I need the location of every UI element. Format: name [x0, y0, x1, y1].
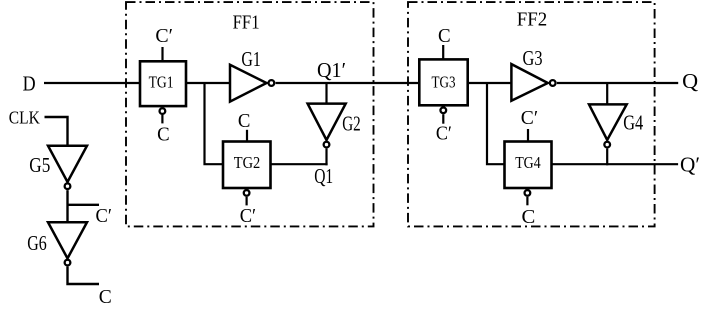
svg-text:C: C — [438, 25, 451, 47]
svg-text:C: C — [522, 206, 536, 228]
TG3 bottom bubble — [440, 107, 446, 113]
svg-text:C: C — [157, 123, 170, 145]
wire TG4 output to Q' — [552, 163, 679, 165]
svg-text:TG3: TG3 — [432, 73, 456, 92]
svg-text:C′: C′ — [96, 205, 112, 227]
svg-text:C′: C′ — [155, 25, 173, 47]
svg-text:TG4: TG4 — [515, 153, 541, 172]
svg-text:Q1′: Q1′ — [317, 58, 346, 82]
transmission gate TG1 — [140, 61, 186, 106]
wire D to TG1 — [44, 82, 141, 84]
TG4 bottom bubble — [525, 190, 531, 196]
wire TG1 to G1 — [186, 82, 231, 84]
wire G3 to Q — [557, 82, 678, 84]
svg-text:G4: G4 — [623, 111, 643, 135]
wire CLK to G5 — [45, 117, 68, 147]
svg-text:C′: C′ — [521, 107, 538, 129]
TG4 bottom control stub — [526, 197, 528, 206]
svg-text:G3: G3 — [523, 46, 543, 70]
svg-text:CLK: CLK — [9, 107, 40, 127]
inverter G5 (pointing down) — [48, 146, 87, 182]
svg-text:D: D — [23, 72, 36, 96]
wire G4 bubble to Q' rail — [606, 149, 608, 166]
svg-text:G2: G2 — [342, 112, 361, 136]
svg-text:G6: G6 — [27, 231, 47, 255]
svg-text:Q′: Q′ — [680, 152, 700, 176]
svg-text:C: C — [238, 110, 251, 132]
TG3 top control stub — [442, 45, 444, 59]
inverter G4 (pointing down) — [589, 104, 627, 140]
TG1 bottom control stub — [161, 115, 163, 123]
svg-text:G5: G5 — [29, 153, 50, 177]
svg-text:TG1: TG1 — [149, 72, 174, 91]
inverter G3 — [511, 64, 547, 101]
wire TG2 output to G2 — [271, 163, 328, 165]
svg-text:C: C — [99, 286, 112, 308]
svg-text:FF2: FF2 — [517, 9, 548, 31]
wire G1 to TG3 — [276, 82, 421, 84]
transmission gate TG2 — [223, 142, 271, 189]
svg-text:C′: C′ — [436, 123, 452, 145]
TG4 top control stub — [527, 129, 529, 142]
inverter G2 (pointing down) — [308, 104, 346, 140]
TG1 top control stub — [161, 47, 163, 62]
wire junction branch down to TG2 — [205, 83, 224, 164]
transmission gate TG4 — [505, 142, 552, 189]
TG2 bottom bubble — [244, 190, 250, 196]
wire branch to C' tap — [68, 204, 100, 206]
wire TG3 to G3 — [468, 82, 512, 84]
TG2 top control stub — [246, 130, 248, 142]
inverter G6 (pointing down) — [48, 222, 87, 258]
wire G5 to G6 — [66, 190, 68, 223]
svg-text:FF1: FF1 — [233, 11, 260, 33]
TG1 bottom bubble — [160, 108, 166, 114]
TG2 bottom control stub — [246, 197, 248, 206]
TG3 bottom control stub — [442, 114, 444, 124]
svg-text:G1: G1 — [241, 47, 261, 71]
wire G2 bubble to Q1 rail — [325, 149, 327, 166]
FF1 dashed box — [126, 2, 374, 226]
wire junction down to G4 — [606, 83, 608, 105]
svg-text:Q1: Q1 — [314, 164, 333, 188]
svg-text:Q: Q — [682, 69, 698, 93]
wire junction down to G2 — [325, 83, 327, 104]
svg-text:TG2: TG2 — [234, 153, 260, 172]
wire G6 to C tap — [68, 267, 100, 284]
wire junction branch down to TG4 — [487, 83, 505, 164]
transmission gate TG3 — [419, 59, 467, 105]
inverter G1 — [230, 65, 267, 102]
svg-text:C′: C′ — [240, 205, 256, 227]
FF2 dashed box — [408, 2, 655, 226]
